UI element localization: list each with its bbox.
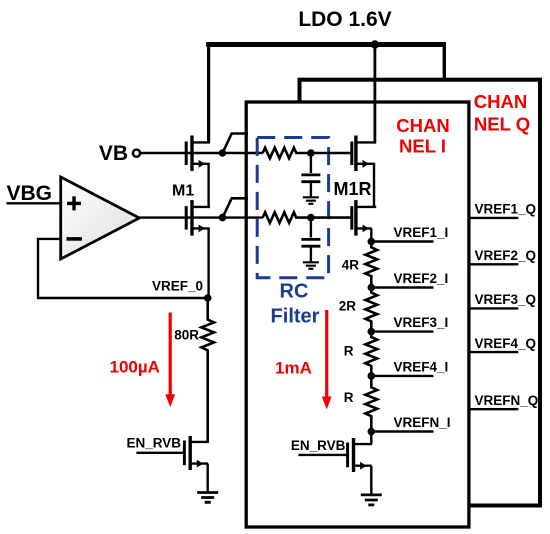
svg-text:VREF1_I: VREF1_I: [394, 225, 449, 240]
transistor cascode top replica: [352, 136, 376, 207]
svg-text:VREFN_I: VREFN_I: [394, 415, 451, 430]
net label VB: [99, 142, 128, 165]
channel Q box: [300, 80, 541, 506]
resistor 2R: [339, 288, 377, 332]
svg-text:CHAN: CHAN: [474, 91, 527, 112]
node VREF_0: [152, 279, 212, 302]
node VREF3_I: [368, 315, 449, 335]
svg-text:VREF_0: VREF_0: [152, 279, 203, 294]
transistor M1R: [334, 179, 377, 241]
svg-text:R: R: [344, 390, 354, 405]
current arrow 100uA: [110, 313, 176, 408]
svg-text:RC: RC: [280, 281, 309, 303]
wire rail right drop: [443, 42, 446, 80]
resistor R upper: [344, 332, 377, 376]
transistor M1: [172, 183, 210, 299]
node gate tap top: [219, 134, 248, 157]
transistor EN_RVB left: [127, 436, 209, 493]
svg-text:VREFN_Q: VREFN_Q: [475, 393, 539, 408]
node VREF3_Q: [469, 292, 537, 308]
transistor EN_RVB right: [291, 432, 372, 495]
svg-text:VBG: VBG: [7, 182, 53, 205]
ground right: [361, 495, 382, 505]
svg-text:VREF2_Q: VREF2_Q: [475, 248, 537, 263]
node gate tap bottom: [219, 198, 248, 221]
channel I box: [246, 102, 469, 527]
svg-text:80R: 80R: [174, 328, 199, 343]
svg-text:LDO 1.6V: LDO 1.6V: [298, 8, 391, 31]
ground left: [197, 493, 218, 503]
wire VB gate line: [140, 152, 262, 154]
resistor 4R: [342, 242, 377, 288]
svg-text:1mA: 1mA: [275, 359, 312, 378]
capacitor C2: [301, 214, 320, 269]
wire rail left drop: [207, 42, 210, 142]
wire feedback to VREF_0: [38, 239, 208, 298]
node VREF1_Q: [469, 202, 537, 218]
wire rail to M1R drain: [373, 45, 376, 143]
capacitor C1: [301, 149, 320, 204]
svg-text:Filter: Filter: [271, 306, 320, 328]
svg-text:VREF3_I: VREF3_I: [394, 315, 449, 330]
wire op-amp output line: [139, 216, 262, 218]
svg-text:EN_RVB: EN_RVB: [291, 438, 346, 453]
op-amp U1: [61, 177, 140, 259]
label CHANNEL Q: [474, 91, 530, 135]
svg-text:NEL I: NEL I: [399, 136, 446, 157]
node VREF2_I: [368, 271, 449, 291]
node VREFN_Q: [469, 393, 539, 409]
label RC Filter: [271, 281, 320, 328]
svg-text:2R: 2R: [339, 299, 357, 314]
svg-text:VREF2_I: VREF2_I: [394, 271, 449, 286]
net label LDO 1.6V: [298, 8, 391, 31]
resistor RC bottom: [263, 212, 352, 223]
svg-text:VB: VB: [99, 142, 128, 165]
svg-text:VREF4_I: VREF4_I: [394, 359, 449, 374]
svg-text:CHAN: CHAN: [396, 115, 449, 136]
RC filter dashed box: [257, 138, 328, 278]
node VREF1_I: [368, 225, 449, 245]
transistor cascode top (VB device): [186, 136, 210, 207]
terminal VB: [133, 150, 140, 157]
current arrow 1mA: [275, 310, 332, 410]
node VREF4_Q: [469, 336, 537, 352]
resistor R lower: [344, 376, 377, 432]
label CHANNEL I: [396, 115, 449, 157]
node LDO junction: [371, 40, 379, 48]
svg-text:M1: M1: [172, 183, 194, 200]
svg-text:EN_RVB: EN_RVB: [127, 436, 182, 451]
net label VBG: [7, 182, 53, 205]
node VREF2_Q: [469, 248, 537, 264]
svg-text:VREF3_Q: VREF3_Q: [475, 292, 537, 307]
node VREF4_I: [368, 359, 449, 379]
svg-text:VREF1_Q: VREF1_Q: [475, 202, 537, 217]
node VREFN_I: [368, 415, 451, 435]
svg-text:100µA: 100µA: [110, 358, 160, 377]
svg-text:4R: 4R: [342, 258, 360, 273]
wire VBG input: [7, 202, 61, 204]
svg-text:NEL Q: NEL Q: [474, 114, 530, 135]
svg-text:R: R: [344, 344, 354, 359]
resistor 80R: [174, 298, 214, 442]
svg-text:VREF4_Q: VREF4_Q: [475, 336, 537, 351]
wire LDO rail: [206, 42, 444, 47]
svg-text:M1R: M1R: [334, 179, 372, 199]
resistor RC top: [263, 148, 352, 159]
